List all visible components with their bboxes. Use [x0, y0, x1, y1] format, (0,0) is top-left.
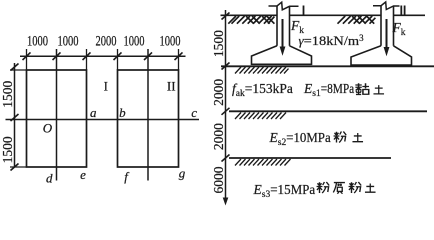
tick slash at x=117.5 — [114, 52, 122, 60]
tick slash at x=26.5 — [23, 52, 31, 60]
svg-text:Es1=8MPa: Es1=8MPa — [303, 81, 354, 99]
extension line at right footing left edge — [117, 49, 119, 70]
axis line O-a-b-c — [6, 119, 200, 121]
ground hatch between columns — [338, 16, 376, 24]
section mark II — [401, 6, 404, 16]
svg-text:d: d — [46, 171, 53, 186]
svg-text:f: f — [124, 169, 130, 184]
scale tick at layer3 — [222, 155, 230, 162]
label 粉质粉土 (silty soil) — [317, 182, 330, 193]
tick slash at x=178.5 — [175, 52, 183, 60]
layer line 2 — [229, 110, 427, 112]
svg-text:fak=153kPa: fak=153kPa — [232, 81, 293, 99]
ground hatch left — [228, 16, 274, 24]
svg-text:e: e — [80, 167, 86, 182]
svg-text:I: I — [104, 78, 108, 93]
svg-text:c: c — [191, 105, 197, 120]
svg-text:O: O — [43, 121, 53, 136]
extension line top-left — [10, 69, 27, 71]
layer line 3 — [229, 157, 391, 159]
column I left line — [276, 6, 278, 46]
extension line bottom-left — [10, 166, 27, 168]
column II left line — [380, 6, 382, 46]
svg-text:2000: 2000 — [211, 79, 226, 106]
depth scale bottom arrow — [223, 198, 229, 206]
left footing centre line — [56, 49, 58, 181]
svg-text:II: II — [167, 78, 176, 93]
extension line at left footing right edge — [86, 49, 88, 70]
load arrow Fk column II — [384, 19, 390, 56]
svg-text:1000: 1000 — [160, 34, 181, 50]
scale tick at footing base — [222, 63, 230, 70]
load arrow Fk column I — [280, 19, 286, 56]
layer line 1 (footing base) — [221, 65, 434, 67]
ground line left of column I — [221, 14, 278, 16]
top dimension line — [20, 55, 186, 57]
svg-text:6000: 6000 — [211, 166, 226, 193]
svg-text:1500: 1500 — [0, 136, 15, 163]
scale tick at layer2 — [222, 108, 230, 115]
layer 3 hatch — [235, 159, 291, 166]
column II right line — [393, 6, 395, 46]
tick slash at x=148 — [144, 52, 152, 60]
svg-text:2000: 2000 — [96, 34, 117, 50]
svg-text:g: g — [179, 166, 186, 181]
column I break symbol — [269, 2, 299, 10]
svg-text:a: a — [90, 105, 97, 120]
depth scale line — [225, 10, 227, 199]
svg-text:γ=18kN/m3: γ=18kN/m3 — [299, 33, 365, 48]
right footing plan rectangle — [118, 70, 179, 167]
section mark I — [303, 6, 305, 16]
footing I outline — [252, 46, 312, 65]
tick slash at x=56.5 — [53, 52, 61, 60]
ground line right of column II — [394, 14, 426, 16]
layer 1 hatch — [235, 67, 289, 74]
svg-text:1500: 1500 — [0, 81, 15, 108]
svg-text:1000: 1000 — [124, 34, 145, 50]
tick slash at y=117.5 — [11, 114, 19, 121]
svg-text:1000: 1000 — [58, 34, 79, 50]
tick slash at y=67 — [11, 64, 19, 71]
left vertical dimension line — [14, 63, 16, 168]
label 粉土 (silt) — [334, 132, 347, 143]
svg-text:1000: 1000 — [27, 34, 48, 50]
layer 2 hatch — [235, 113, 286, 120]
left footing plan rectangle — [27, 70, 87, 167]
tick slash at x=86.5 — [83, 52, 91, 60]
svg-text:1500: 1500 — [211, 30, 226, 57]
column II break symbol — [373, 2, 400, 10]
label 黏土 (clay) — [355, 83, 369, 95]
svg-text:2000: 2000 — [211, 123, 226, 150]
svg-text:b: b — [119, 105, 126, 120]
svg-text:Es2=10MPa: Es2=10MPa — [269, 130, 331, 148]
tick slash at y=167 — [11, 164, 19, 171]
scale tick at ground — [222, 13, 230, 20]
right footing centre line — [147, 49, 149, 181]
extension line at right footing right edge — [178, 49, 180, 70]
svg-text:Es3=15MPa: Es3=15MPa — [253, 182, 316, 200]
column I right line — [289, 6, 291, 46]
ground line between columns — [290, 14, 382, 16]
extension line at left footing left edge — [26, 49, 28, 70]
footing II outline — [351, 46, 412, 65]
